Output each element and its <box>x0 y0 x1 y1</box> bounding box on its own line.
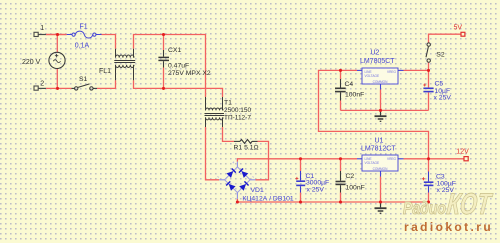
ground upper (U2 rail) <box>375 110 387 121</box>
wire C2 bottom lead to 0V rail <box>340 193 342 203</box>
diode top-left <box>226 171 248 191</box>
regulator U1 LM7812CT <box>362 155 398 171</box>
junction C2 top on +raw rail <box>339 157 342 160</box>
wire U1 common to ground rail <box>380 177 382 203</box>
switch S1 <box>72 87 75 89</box>
wire CX1 leads red parts <box>163 35 165 51</box>
svg-text:5V: 5V <box>454 24 463 31</box>
wire U1 output to 12V terminal <box>404 158 465 160</box>
svg-text:CX1: CX1 <box>168 47 181 54</box>
capacitor C2 <box>336 171 346 193</box>
junction C1 top on +raw rail <box>299 157 302 160</box>
wire terminal2 junction to switch S1 <box>46 87 72 89</box>
svg-text:0.47uF: 0.47uF <box>168 63 189 70</box>
wire C1 bottom lead to 0V rail <box>300 193 302 203</box>
terminal 2 <box>34 86 38 90</box>
svg-text:VREG: VREG <box>387 70 397 74</box>
capacitor C4 <box>335 79 346 101</box>
svg-text:LM7812CT: LM7812CT <box>361 145 396 152</box>
junction CX1 bottom <box>162 87 165 90</box>
svg-text:x 25V: x 25V <box>434 95 452 102</box>
wire U2 input feed from 12V rail <box>319 70 429 158</box>
ground lower (0V rail) <box>375 202 387 213</box>
fuse F1 <box>67 31 102 38</box>
svg-text:R1 5.1Ω: R1 5.1Ω <box>234 145 259 152</box>
wire bridge top to plus rail <box>237 159 357 162</box>
svg-text:12V: 12V <box>456 149 469 156</box>
wire C3 bottom lead to 0V rail <box>428 193 430 203</box>
svg-text:S1: S1 <box>79 76 88 83</box>
svg-text:VD1: VD1 <box>251 187 264 194</box>
wire switch S1 to FL1 bottom-left <box>97 80 116 88</box>
junction C1 bottom on 0V rail <box>299 200 302 203</box>
wire bottom row terminal2 to switch <box>38 87 46 89</box>
svg-text:КЦ412А / DB101: КЦ412А / DB101 <box>242 196 294 203</box>
svg-text:ТП-112-7: ТП-112-7 <box>224 115 251 122</box>
svg-text:VOLTAGE: VOLTAGE <box>365 74 380 78</box>
svg-text:100nF: 100nF <box>345 91 364 98</box>
watermark logo <box>403 187 494 221</box>
junction CX1 top <box>162 33 165 36</box>
junction source bottom / terminal 2 <box>56 87 59 90</box>
wire T1 secondary left down to bridge <box>206 127 220 180</box>
wire U2 ground rail y110 <box>341 109 429 111</box>
terminal 1 <box>34 32 38 36</box>
svg-text:100nF: 100nF <box>346 185 365 192</box>
resistor R1 <box>234 140 258 144</box>
wire C2 vertical red parts <box>340 159 342 171</box>
transformer T1 <box>205 97 225 127</box>
common-mode choke FL1 <box>114 49 135 80</box>
wire U2 output to S2 junction <box>404 69 429 71</box>
capacitor CX1 <box>158 50 169 68</box>
wire C5 leads <box>428 70 430 87</box>
svg-text:radiokot.ru: radiokot.ru <box>404 220 493 234</box>
svg-text:C2: C2 <box>346 173 355 180</box>
junction bridge minus on 0V rail <box>236 200 239 203</box>
switch S2 <box>427 43 430 46</box>
bridge tiny pin labels <box>217 160 255 199</box>
svg-text:VREG: VREG <box>387 157 397 161</box>
svg-text:Радио: Радио <box>403 198 446 218</box>
svg-text:F1: F1 <box>80 23 88 30</box>
junction 12V rail / C3 / U2 feed <box>427 157 430 160</box>
junction U2 output / S2 / C5 <box>427 69 430 72</box>
svg-text:COMMON: COMMON <box>373 167 389 171</box>
svg-text:0,1A: 0,1A <box>75 43 90 50</box>
svg-text:VOLTAGE: VOLTAGE <box>365 161 380 165</box>
wire terminal1 junction to fuse F1 <box>46 34 67 36</box>
svg-text:S2: S2 <box>436 52 445 59</box>
wire FL1 top-right to top rail to T1 left <box>134 35 206 98</box>
wire R1 to bridge right corner <box>255 141 268 179</box>
wire source top lead <box>56 35 58 53</box>
terminal 12V <box>464 157 468 161</box>
wire FL1 bottom-right along y88 to T1 right <box>134 80 223 97</box>
wire S2 top to 5V terminal <box>429 34 461 43</box>
junction source top / terminal 1 <box>56 33 59 36</box>
svg-text:T1: T1 <box>224 100 232 107</box>
wire bridge bottom to 0V rail <box>237 199 428 202</box>
wire C3 vertical red parts <box>428 159 430 172</box>
wire C4 bottom lead to U2 ground rail <box>340 101 342 111</box>
wire CX1 bottom lead to bottom rail <box>163 68 165 89</box>
wire T1 secondary right down to R1 <box>223 127 235 141</box>
wire C5 bottom lead to U2 ground rail <box>428 93 430 111</box>
wire C4 red parts <box>340 70 342 79</box>
svg-text:C4: C4 <box>345 81 354 88</box>
svg-text:2500:150: 2500:150 <box>224 107 251 114</box>
svg-text:x 25V: x 25V <box>307 187 325 194</box>
svg-text:FL1: FL1 <box>99 68 111 75</box>
wire C1 vertical red parts <box>300 159 302 171</box>
svg-text:2: 2 <box>40 81 44 88</box>
wire fuse to FL1 <box>102 35 116 49</box>
svg-text:U2: U2 <box>371 49 380 56</box>
terminal 5V <box>461 32 465 36</box>
wire source bottom lead <box>56 69 58 89</box>
svg-text:COMMON: COMMON <box>373 80 389 84</box>
svg-text:C3: C3 <box>436 173 445 180</box>
junction U1 common on 0V rail <box>379 200 382 203</box>
junction U2 common on ground rail <box>379 109 382 112</box>
svg-text:LM7805CT: LM7805CT <box>360 58 395 65</box>
regulator U2 LM7805CT <box>362 68 398 84</box>
svg-text:C5: C5 <box>435 80 444 87</box>
capacitor C3 <box>424 172 434 193</box>
capacitor C1 <box>296 171 305 193</box>
wire S2 bottom lead <box>428 63 430 71</box>
svg-text:3000µF: 3000µF <box>306 179 329 186</box>
wire U2 common to rail <box>380 90 382 111</box>
svg-text:КОТ: КОТ <box>445 187 494 221</box>
svg-text:1: 1 <box>40 25 44 32</box>
junction C4 top on U2 input wire <box>339 69 342 72</box>
wire top row terminal1 to junction <box>38 34 46 36</box>
svg-text:U1: U1 <box>375 137 384 144</box>
junction C2 bottom on 0V rail <box>339 200 342 203</box>
AC source V1 <box>49 52 65 68</box>
capacitor C5 <box>423 88 433 91</box>
junction C3 bottom on 0V rail <box>427 200 430 203</box>
bridge rectifier VD1 <box>225 167 251 193</box>
svg-text:220 V: 220 V <box>22 59 41 66</box>
svg-text:275V MPX X2: 275V MPX X2 <box>168 70 211 77</box>
